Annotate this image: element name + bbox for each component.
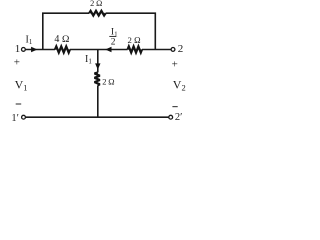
svg-text:V2: V2: [173, 77, 186, 92]
svg-text:+: +: [14, 56, 20, 68]
svg-text:I1: I1: [26, 34, 33, 46]
svg-text:2: 2: [111, 38, 116, 48]
svg-text:+: +: [172, 59, 178, 71]
svg-text:1: 1: [15, 43, 21, 55]
svg-text:2 Ω: 2 Ω: [102, 76, 115, 86]
svg-text:2: 2: [178, 43, 184, 55]
svg-text:4 Ω: 4 Ω: [54, 34, 70, 45]
svg-text:2′: 2′: [175, 112, 183, 123]
svg-text:2 Ω: 2 Ω: [90, 0, 102, 8]
svg-text:2 Ω: 2 Ω: [128, 35, 142, 45]
svg-text:V1: V1: [15, 77, 28, 92]
svg-text:I1: I1: [85, 54, 92, 66]
svg-text:1′: 1′: [11, 113, 19, 124]
